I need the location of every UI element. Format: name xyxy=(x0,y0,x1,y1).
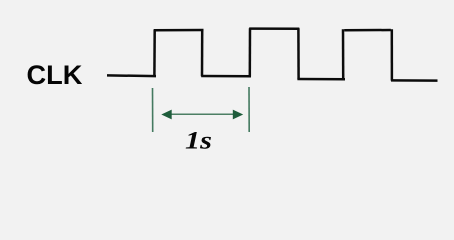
wire: CLK low segment 2 xyxy=(201,75,251,78)
wire: CLK low segment 3 xyxy=(297,78,345,81)
wire: high segment 2 xyxy=(249,27,299,30)
wire: falling edge 3 xyxy=(391,29,394,80)
svg-text:CLK: CLK xyxy=(27,59,83,90)
wire: rising edge 3 xyxy=(342,29,345,79)
measurement tick left xyxy=(152,88,154,132)
wire: falling edge 2 xyxy=(297,28,300,79)
wire: high segment 3 xyxy=(344,29,391,32)
dimension arrow shaft xyxy=(168,113,236,115)
svg-text:1s: 1s xyxy=(185,128,212,155)
dimension arrowhead left xyxy=(161,110,171,120)
measurement tick right xyxy=(248,87,250,132)
wire: CLK low segment 1 xyxy=(107,74,156,77)
wire: rising edge 1 xyxy=(153,30,156,77)
wire: falling edge 1 xyxy=(201,30,204,77)
wire: rising edge 2 xyxy=(249,28,252,76)
dimension arrowhead right xyxy=(233,110,243,120)
wire: high segment 1 xyxy=(154,29,204,32)
wire: CLK low segment 4 xyxy=(391,79,438,82)
